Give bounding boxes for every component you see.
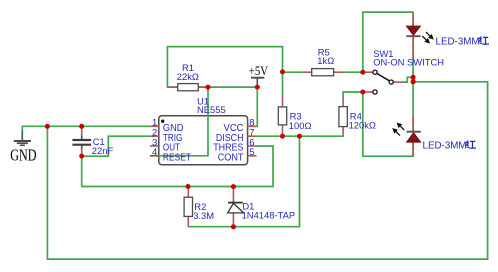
svg-text:1kΩ: 1kΩ [317, 55, 334, 66]
LED LED2 arrows [393, 124, 404, 136]
LED LED2 [407, 117, 421, 157]
svg-text:4: 4 [152, 147, 157, 158]
ground symbol [14, 126, 31, 145]
svg-text:LED-3MM: LED-3MM [423, 140, 467, 151]
svg-text:RESET: RESET [163, 152, 191, 163]
wire R1 row [167, 86, 257, 88]
wire LED mid vertical [412, 58, 414, 117]
svg-text:5: 5 [249, 147, 254, 158]
wire DISCH row [257, 135, 344, 137]
wire R2/D1 bottom rail [188, 136, 299, 227]
node LED junction upper [411, 75, 416, 80]
resistor R1 [167, 84, 208, 91]
resistor R2 [184, 187, 192, 227]
node GND rail / left rail [45, 124, 50, 129]
resistor R3 [278, 95, 286, 136]
node +5V tap [255, 85, 260, 90]
svg-text:ON-ON SWITCH: ON-ON SWITCH [373, 57, 444, 68]
svg-text:GND: GND [10, 146, 36, 165]
svg-text:+5V: +5V [249, 64, 268, 78]
wire GND rail [22, 125, 150, 127]
op-amp U1 NE555 body [159, 116, 248, 165]
svg-text:120kΩ: 120kΩ [349, 120, 376, 131]
wire left vertical + bottom rail + right rail [47, 82, 487, 259]
node R2 top [186, 184, 191, 189]
node C1 top [79, 124, 84, 129]
wire TRIG [82, 136, 150, 156]
diode D1 [228, 187, 244, 227]
svg-text:NE555: NE555 [197, 104, 226, 115]
node R3 bottom [280, 134, 285, 139]
capacitor C1 [72, 127, 91, 156]
resistor R5 [303, 69, 343, 76]
svg-text:3.3M: 3.3M [193, 210, 214, 221]
node R3 top [280, 69, 285, 74]
wire C1 bottom to lower rail and THRES [82, 146, 273, 187]
LED LED1 arrows [422, 32, 432, 43]
wire RESET route over IC [157, 87, 208, 156]
wire switch to LED2 bottom [363, 92, 413, 156]
wire R4 top corner [343, 92, 363, 97]
svg-text:CONT: CONT [218, 152, 244, 163]
node DISCH vertical [297, 134, 302, 139]
pin 1 stub [150, 125, 159, 127]
switch SW1 [365, 70, 403, 94]
LED LED1 [406, 13, 420, 59]
wire R1 left loop to R3 top [167, 47, 282, 95]
svg-text:22kΩ: 22kΩ [177, 71, 199, 82]
pin 4 stub [150, 155, 159, 157]
pin 6 stub [248, 145, 257, 147]
svg-text:1N4148-TAP: 1N4148-TAP [242, 210, 296, 221]
resistor R4 [339, 97, 347, 136]
svg-text:LED-3MM: LED-3MM [436, 36, 480, 47]
pin 8 stub [248, 125, 257, 127]
node LED junction lower [411, 79, 416, 84]
pin 3 stub [150, 145, 159, 147]
pin 2 stub [150, 135, 159, 137]
wire R5 left [283, 71, 303, 73]
value LED-3MM红 (LED2) [423, 140, 477, 151]
value LED-3MM红 (LED1) [436, 36, 490, 47]
node D1 bottom [231, 224, 236, 229]
node D1 top [231, 184, 236, 189]
node C1 bottom [79, 154, 84, 159]
pin 7 stub [248, 135, 257, 137]
node R4 top throw [360, 90, 365, 95]
wire R5 right [343, 71, 363, 73]
wire VCC vertical [250, 87, 257, 126]
svg-text:100Ω: 100Ω [289, 120, 312, 131]
supply +5V symbol [251, 78, 264, 87]
wire pole jog [403, 77, 413, 82]
node R5 right [360, 70, 365, 75]
wire LED1 top feed [363, 12, 413, 72]
svg-text:22nF: 22nF [92, 145, 114, 156]
pin 5 stub [248, 155, 257, 157]
node R1 right [206, 85, 211, 90]
wire LED node to right rail [413, 81, 488, 83]
